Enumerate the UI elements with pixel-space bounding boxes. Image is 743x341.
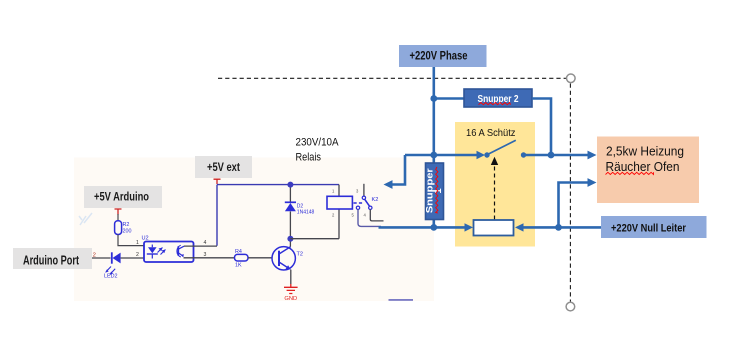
wire R2 top bbox=[117, 214, 119, 221]
connector endpoint circle top bbox=[567, 74, 576, 83]
node +220V Phase label bbox=[399, 45, 487, 67]
junction dot bottom of D2 bbox=[287, 236, 293, 242]
U2 photon arrows bbox=[158, 248, 166, 255]
svg-text:+5V Arduino: +5V Arduino bbox=[94, 190, 149, 204]
junction contact-out bbox=[548, 152, 555, 159]
node +5V Arduino label bbox=[84, 186, 162, 208]
wire contact to node bbox=[524, 154, 588, 157]
dashed actuate arrow bbox=[491, 157, 498, 220]
svg-text:1: 1 bbox=[433, 188, 444, 194]
svg-text:Arduino Port: Arduino Port bbox=[23, 253, 79, 268]
svg-text:Snupper 2: Snupper 2 bbox=[478, 94, 519, 105]
svg-text:1K: 1K bbox=[235, 263, 242, 269]
diode D2 1N4148 bbox=[285, 202, 296, 211]
svg-text:T2: T2 bbox=[297, 252, 304, 258]
watermark bbox=[79, 213, 92, 225]
label D2 1N4148 bbox=[297, 204, 315, 216]
snubber Snupper 2 bbox=[464, 89, 532, 107]
wire phase feed to contact bbox=[405, 154, 477, 157]
junction neutral-phase drop bbox=[430, 224, 437, 231]
svg-text:K2: K2 bbox=[372, 197, 379, 203]
wire load neutral branch bbox=[559, 183, 588, 228]
node +5V ext label bbox=[195, 156, 252, 178]
junction phase-feed bbox=[430, 152, 437, 159]
transistor U2 phototransistor bbox=[177, 245, 184, 257]
svg-text:1N4148: 1N4148 bbox=[297, 210, 315, 216]
wire NC contact lead bbox=[358, 210, 381, 227]
wire NO contact lead bbox=[370, 210, 383, 221]
wire R4 to T2 base bbox=[248, 257, 272, 259]
ground GND bbox=[284, 284, 298, 294]
wire relay feed vertical bbox=[392, 155, 405, 185]
arrow into relay contact bbox=[384, 180, 393, 189]
label 230V/10A Relais bbox=[296, 137, 340, 164]
svg-text:2,5kw Heizung: 2,5kw Heizung bbox=[606, 143, 684, 158]
junction phase-snupper2 bbox=[430, 95, 437, 102]
wire bottom neutral left bbox=[379, 226, 465, 229]
junction neutral-load bbox=[555, 224, 562, 231]
svg-text:U2: U2 bbox=[142, 236, 149, 242]
svg-text:200: 200 bbox=[123, 229, 132, 235]
svg-text:Relais: Relais bbox=[296, 152, 322, 164]
purple mark bottom bbox=[389, 299, 414, 301]
arrow to load neutral bbox=[588, 178, 597, 187]
wire +5V ext rail bbox=[217, 185, 339, 246]
wire contact common lead bbox=[363, 184, 365, 196]
wire U2 pin4 bbox=[184, 245, 217, 247]
relay K2 contact bbox=[356, 196, 372, 209]
svg-text:GND: GND bbox=[284, 296, 297, 302]
power +5V Arduino terminal bbox=[115, 209, 122, 215]
svg-text:+220V Null Leiter: +220V Null Leiter bbox=[611, 223, 687, 235]
svg-text:230V/10A: 230V/10A bbox=[296, 137, 340, 149]
wire snupper2 branch left bbox=[434, 97, 464, 100]
contact 16A switch bbox=[484, 140, 526, 157]
wire diode branch bbox=[289, 185, 291, 239]
wire snupper2 branch right bbox=[532, 99, 551, 156]
Schuetz block background bbox=[455, 122, 535, 247]
arrow to load phase bbox=[588, 151, 597, 160]
svg-text:Räucher Ofen: Räucher Ofen bbox=[606, 159, 680, 174]
dashed boundary vertical bbox=[569, 84, 571, 302]
connector endpoint circle bottom bbox=[566, 302, 575, 311]
relay K2 coil bbox=[327, 196, 352, 209]
power +5V ext terminal bbox=[214, 179, 221, 184]
node +220V Null Leiter label bbox=[601, 216, 707, 238]
LED LED2 bbox=[105, 252, 120, 275]
dashed boundary horizontal bbox=[218, 77, 566, 79]
arrow into coil right bbox=[515, 223, 524, 231]
resistor R4 bbox=[235, 254, 249, 261]
svg-text:R2: R2 bbox=[123, 222, 130, 228]
load 2,5kw Heizung box bbox=[597, 137, 699, 204]
svg-text:2: 2 bbox=[136, 252, 139, 258]
transistor T2 bbox=[272, 247, 295, 270]
contactor coil box bbox=[474, 220, 514, 236]
snubber Snupper 1 bbox=[424, 163, 444, 220]
wire R2 bottom to U2 pin1 bbox=[118, 235, 144, 246]
diode U2 internal LED bbox=[147, 245, 158, 259]
svg-text:+220V Phase: +220V Phase bbox=[410, 49, 468, 63]
relay mechanical link bbox=[354, 202, 364, 204]
wire LED2 to U2 pin2 bbox=[121, 257, 144, 259]
svg-text:4: 4 bbox=[204, 240, 207, 246]
wire phase drop bbox=[432, 67, 435, 227]
wire U2 pin3 to R4 bbox=[184, 257, 235, 259]
pin marks contacts bbox=[352, 189, 367, 218]
wire T2 collector bbox=[289, 239, 291, 247]
svg-text:16 A Schütz: 16 A Schütz bbox=[466, 128, 516, 139]
wire relay coil top lead bbox=[338, 185, 340, 239]
resistor R2 bbox=[115, 221, 122, 235]
arrow into coil left bbox=[465, 223, 474, 231]
svg-text:1: 1 bbox=[136, 240, 139, 246]
label R2 200 bbox=[123, 222, 132, 235]
schematic background sheet bbox=[74, 158, 434, 302]
junction dot top of D2 bbox=[287, 182, 293, 188]
node Arduino Port label bbox=[13, 248, 92, 269]
label R4 1K bbox=[235, 249, 242, 269]
op-amp U2 optocoupler body bbox=[144, 242, 194, 263]
svg-text:+5V ext: +5V ext bbox=[207, 160, 240, 174]
wire Arduino Port to LED2 bbox=[92, 257, 111, 259]
svg-text:R4: R4 bbox=[235, 249, 242, 255]
svg-text:LED2: LED2 bbox=[104, 274, 118, 280]
pin marks coil bbox=[332, 189, 335, 218]
svg-text:3: 3 bbox=[204, 252, 207, 258]
arrow into contact bbox=[477, 151, 486, 159]
wire coil bottom return bbox=[290, 238, 339, 240]
wire bottom neutral right bbox=[523, 226, 601, 229]
wire T2 emitter to ground bbox=[290, 270, 292, 284]
